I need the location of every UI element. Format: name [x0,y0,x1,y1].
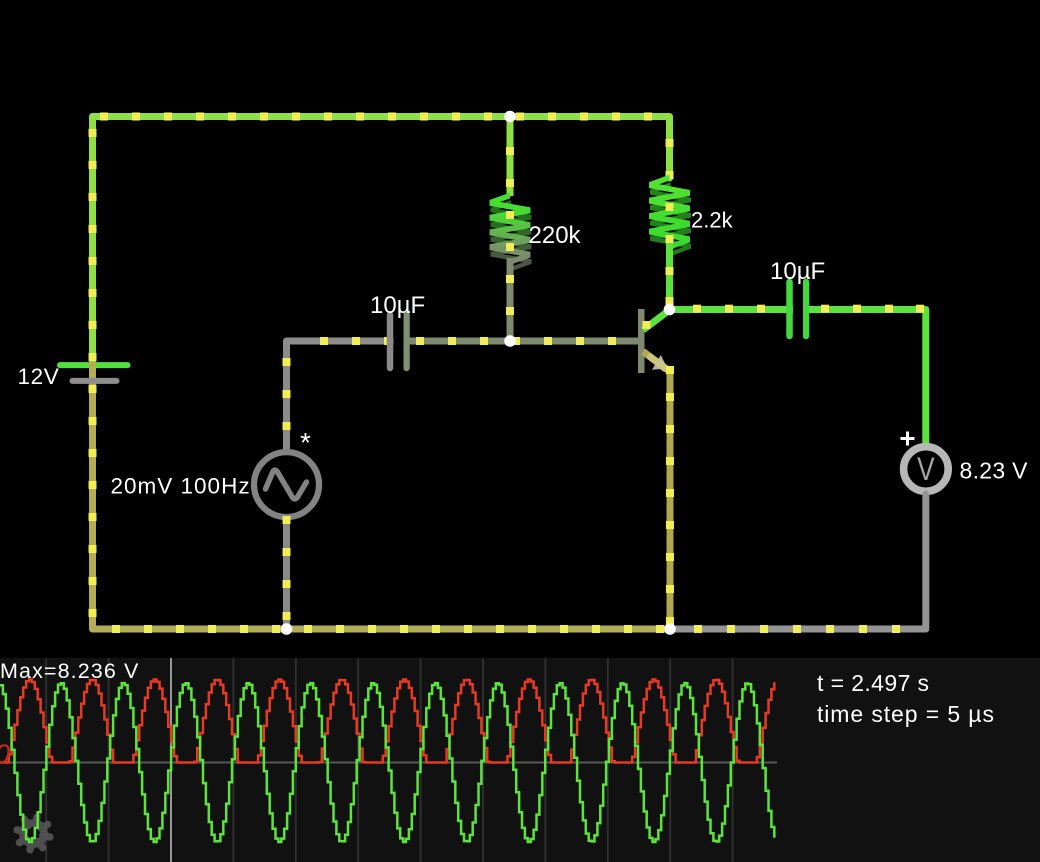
capacitor C2 10uF left plate [786,282,793,336]
wire: voltmeter bottom lead (926,491)-(926,629)-(670,629) [670,494,926,629]
transistor Q1: collector diagonal [643,310,670,330]
current dots: left vertical olive below battery [89,385,97,617]
current dots: 220k branch [506,211,514,315]
wire: 2.2k bottom lead (669,247)-(669,309) [666,243,673,310]
voltmeter M1: circle [904,447,949,492]
svg-text:*: * [300,427,311,458]
transistor Q1: emitter arrow [652,355,668,370]
wire: base row (286,341)-(638,341) with corner down to AC source [287,341,639,449]
node: AC source / bottom rail junction [281,623,293,635]
battery B1 12V: negative plate [73,378,117,384]
AC source V2: circle [254,452,319,517]
wire: 220k bottom lead to base node (510,262)-(510,341) [507,258,514,341]
scope green trace (collector voltage) [0,683,774,842]
wire: 220k top lead (510,116)-(510,196) [507,117,514,197]
label 2.2k [691,208,734,233]
label 220k [529,222,582,249]
node: collector junction [664,304,676,316]
svg-text:t = 2.497 s: t = 2.497 s [817,670,929,696]
current dots: top rail [100,113,652,121]
transistor Q1: emitter diagonal and down wire [643,352,670,630]
label C2 10uF [770,258,825,285]
capacitor C1 10uF right plate [403,315,410,368]
current dots: left vertical green [89,129,97,361]
capacitor C1 10uF left plate [387,315,394,368]
svg-text:2.2k: 2.2k [691,208,734,233]
wire: AC source bottom lead (286,517)-(286,629) [283,517,290,629]
svg-text:Max=8.236 V: Max=8.236 V [0,659,139,683]
wire: collector row (669,309)-(926,309) and down to voltmeter [670,310,926,445]
current dots: base row [320,337,616,345]
capacitor C2 10uF right plate [803,282,810,336]
wire: bottom rail left (92,629)-(670,629) olive [93,620,671,629]
svg-text:10µF: 10µF [770,258,825,285]
svg-text:0: 0 [0,739,10,769]
resistor R1 220k shadow [491,200,532,271]
black gap between C1 plates [394,312,404,372]
oscilloscope zero axis line [0,762,777,764]
scope settings gear icon [17,817,50,850]
node: base junction [504,335,516,347]
time readout [817,670,929,696]
battery label 12V [18,364,60,389]
battery B1 12V: wire between/below plates [89,362,96,629]
label 20mV 100Hz [111,474,251,499]
node: top rail / 220k junction [504,111,516,123]
current dots: bottom rail left [112,625,664,633]
voltmeter plus sign [901,432,915,446]
svg-text:8.23 V: 8.23 V [960,458,1029,484]
current dots: 220k top lead [506,147,514,187]
current dots: AC bottom lead [283,516,291,620]
svg-text:time step = 5 µs: time step = 5 µs [817,701,995,727]
voltmeter M1: V letter [917,451,935,487]
node: emitter / bottom rail junction [664,623,676,635]
wire: top rail 12V (92,116)-(669,116) and down-corners [93,117,670,363]
current dots: emitter vertical [666,366,674,625]
svg-text:12V: 12V [18,364,60,389]
current dots: AC top lead [283,358,291,430]
oscilloscope grid vertical lines [46,658,732,862]
label C1 10uF [370,292,425,319]
battery B1 12V: positive plate [60,362,128,368]
current dots: collector row [693,305,924,313]
resistor R1 220k [490,193,531,265]
AC source phase asterisk [300,427,311,458]
current dots: collector diagonal [643,321,651,329]
black gap between C2 plates [793,279,803,339]
svg-text:10µF: 10µF [370,292,425,319]
scope zero label [0,739,10,769]
scope max label [0,659,139,683]
oscilloscope background strip [0,658,1040,862]
svg-text:220k: 220k [529,222,582,249]
scope red trace (output voltage) [0,680,774,763]
resistor R2 2.2k [649,175,690,250]
current dots: bottom rail right [694,625,900,633]
time step readout [817,701,995,727]
voltmeter reading 8.23 V [960,458,1029,484]
svg-text:V: V [917,451,935,487]
current dots: 2.2k bottom lead [666,203,674,305]
AC source V2: sine symbol [266,470,307,499]
svg-text:20mV 100Hz: 20mV 100Hz [111,474,251,499]
resistor R2 2.2k shadow [650,182,691,256]
wire: emitter current trail highlight [651,357,666,369]
transistor Q1: base bar [638,309,645,373]
current dots: 2.2k top lead [666,139,674,179]
